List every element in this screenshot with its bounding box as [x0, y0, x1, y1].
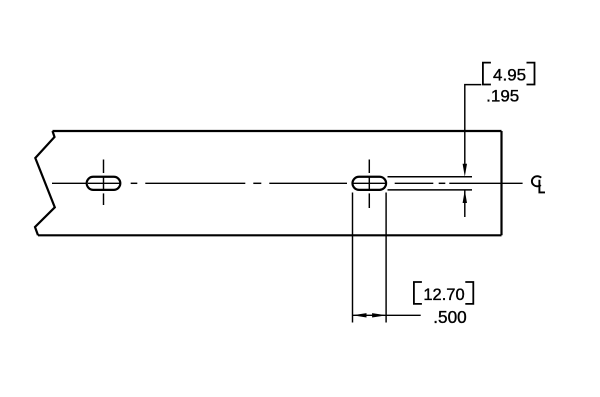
dimension text [4.95]	[483, 63, 535, 85]
arrowhead left	[353, 313, 367, 317]
horizontal centerline	[52, 182, 523, 184]
centerline symbol	[532, 176, 545, 192]
part outline bottom edge	[38, 234, 502, 236]
arrowhead right	[372, 313, 386, 317]
svg-text:12.70: 12.70	[423, 286, 464, 304]
vertical centerline right slot	[368, 160, 370, 209]
arrowhead up	[463, 190, 467, 203]
slot hole right	[353, 177, 387, 190]
dimension text [12.70]	[414, 282, 473, 304]
slot hole left	[87, 177, 121, 190]
vertical centerline left slot	[103, 160, 105, 206]
arrowhead down	[463, 164, 467, 177]
svg-text:.195: .195	[486, 87, 519, 106]
extension line slot left end	[352, 193, 354, 323]
dimension text .195	[486, 87, 519, 106]
svg-text:4.95: 4.95	[493, 65, 526, 84]
part outline right edge	[500, 131, 502, 235]
dimension text .500	[433, 307, 466, 327]
dimension leader 4.95/.195	[465, 85, 482, 217]
extension line slot top edge	[388, 176, 473, 178]
break line (jagged left end)	[35, 131, 55, 235]
extension line slot right end	[385, 193, 387, 323]
part outline top edge	[53, 130, 502, 132]
extension line slot bottom edge	[388, 189, 473, 191]
dimension line 12.70/.500	[353, 314, 421, 316]
svg-text:.500: .500	[433, 307, 466, 327]
